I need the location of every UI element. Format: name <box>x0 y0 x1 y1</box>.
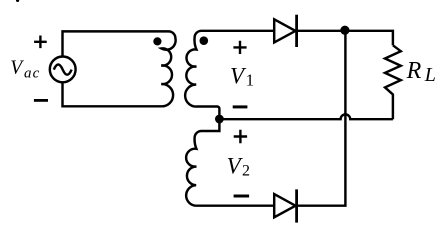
polarity dot primary <box>153 37 161 45</box>
transformer secondary winding V1 (top half) with lead to center tap <box>185 31 273 119</box>
resistor RL zigzag <box>385 45 401 119</box>
svg-text:1: 1 <box>246 71 254 90</box>
wire: top rail from D1 to resistor corner <box>297 31 393 46</box>
sine wave inside source <box>54 65 72 75</box>
wire: right vertical from top junction down to bottom rail and D2 <box>297 31 346 206</box>
svg-text:L: L <box>424 64 436 86</box>
transformer primary winding L1 with source loop wires <box>63 31 176 106</box>
svg-text:ac: ac <box>24 66 40 82</box>
svg-text:V: V <box>230 63 247 88</box>
center tap junction dot <box>215 115 224 124</box>
plus sign V1 <box>233 41 246 54</box>
svg-text:2: 2 <box>242 162 250 179</box>
svg-text:V: V <box>10 58 24 79</box>
diode D2 cathode bar <box>295 189 298 222</box>
polarity dot secondary <box>200 36 209 45</box>
wire: center tap rail with hop over vertical <box>219 114 393 119</box>
minus sign at source <box>34 99 48 102</box>
svg-text:R: R <box>406 58 422 84</box>
minus sign V2 <box>234 195 250 198</box>
minus sign V1 <box>233 105 248 108</box>
diode D1 cathode bar <box>295 15 298 47</box>
transformer secondary winding V2 (bottom half) from center tap to D2 <box>186 119 273 206</box>
plus sign at source <box>34 36 47 49</box>
plus sign V2 <box>234 130 247 143</box>
top node junction dot <box>340 26 349 35</box>
stray mark top edge <box>16 0 19 2</box>
diode D1 triangle <box>274 19 295 42</box>
diode D2 triangle <box>274 194 295 217</box>
ac source Vac <box>50 57 76 83</box>
